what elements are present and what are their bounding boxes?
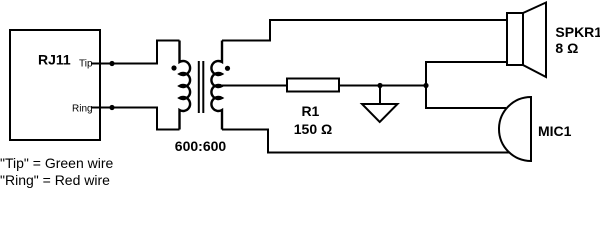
svg-text:Tip: Tip (79, 59, 93, 70)
ground symbol (362, 104, 398, 122)
transformer T1 core line right (202, 61, 204, 113)
junction dot ring (109, 105, 114, 110)
junction dot ground node (377, 83, 382, 88)
transformer T1 secondary phase dot (225, 66, 230, 71)
junction dot tip (109, 61, 114, 66)
svg-text:8 Ω: 8 Ω (555, 40, 578, 56)
wire R1 to node (339, 85, 426, 87)
microphone MIC1 body (499, 97, 531, 161)
transformer T1 core line left (198, 61, 200, 113)
ground stub wire (379, 86, 381, 105)
wire secondary center tap to R1 (222, 85, 287, 87)
svg-text:MIC1: MIC1 (538, 123, 572, 139)
transformer T1 secondary winding (211, 41, 222, 130)
wire tip (RJ11 Tip to transformer primary top) (91, 41, 180, 64)
connector RJ11 box (10, 30, 100, 140)
speaker SPKR1 cone (523, 3, 546, 78)
wire speaker bottom to node to mic top (426, 62, 507, 108)
svg-text:SPKR1: SPKR1 (555, 24, 600, 40)
resistor R1 body (287, 79, 339, 92)
speaker SPKR1 driver rectangle (507, 13, 523, 65)
transformer T1 primary winding (180, 41, 191, 130)
svg-text:"Ring" = Red wire: "Ring" = Red wire (0, 172, 110, 188)
svg-text:R1: R1 (301, 103, 319, 119)
svg-text:150 Ω: 150 Ω (294, 121, 332, 137)
svg-text:600:600: 600:600 (175, 138, 227, 154)
svg-text:"Tip" = Green wire: "Tip" = Green wire (0, 155, 114, 171)
wire secondary bottom rail to mic (222, 130, 509, 153)
wire secondary top to speaker (top rail) (222, 20, 507, 41)
junction dot speaker/mic node (423, 83, 428, 88)
transformer T1 primary phase dot (171, 65, 176, 70)
svg-text:RJ11: RJ11 (38, 52, 71, 68)
svg-text:Ring: Ring (72, 104, 93, 115)
wire ring (RJ11 Ring to transformer primary bottom) (91, 108, 180, 130)
